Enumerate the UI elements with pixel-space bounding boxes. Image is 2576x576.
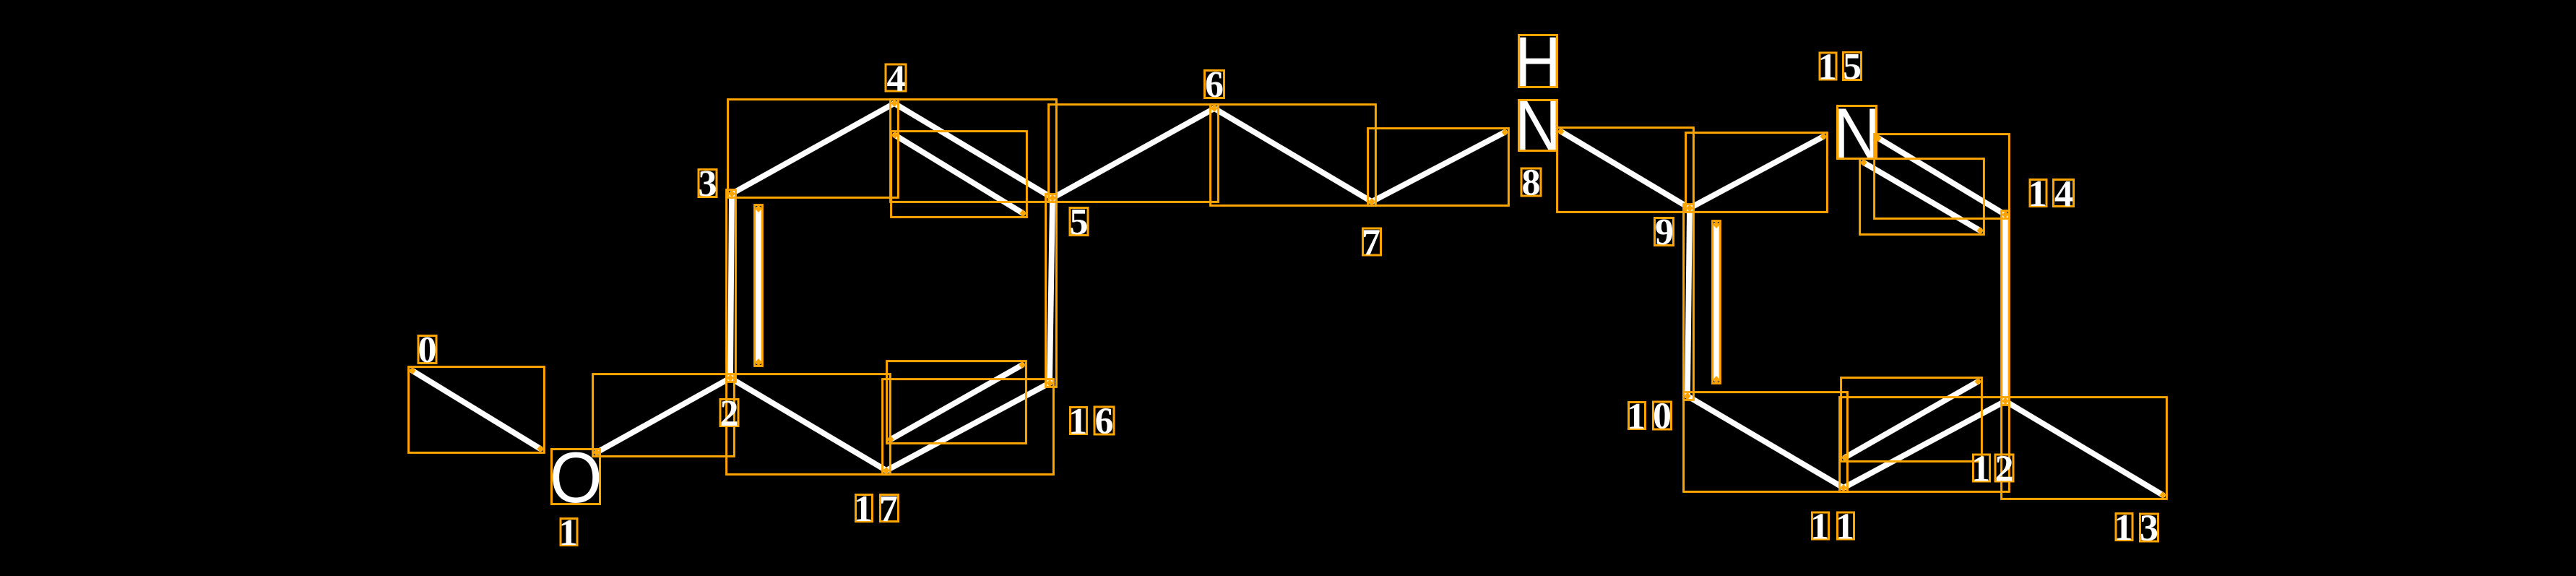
svg-text:3: 3 xyxy=(699,163,717,205)
svg-text:9: 9 xyxy=(1655,212,1674,253)
svg-text:6: 6 xyxy=(1095,401,1114,442)
svg-text:4: 4 xyxy=(887,59,906,100)
svg-text:1: 1 xyxy=(1810,507,1829,548)
svg-text:7: 7 xyxy=(879,489,898,530)
svg-text:N: N xyxy=(1515,86,1561,166)
svg-text:0: 0 xyxy=(418,330,437,371)
svg-text:6: 6 xyxy=(1205,64,1224,106)
svg-text:0: 0 xyxy=(1653,396,1672,437)
svg-text:1: 1 xyxy=(559,512,578,554)
svg-text:7: 7 xyxy=(1362,223,1380,264)
svg-text:4: 4 xyxy=(2054,173,2073,215)
svg-text:O: O xyxy=(550,439,602,518)
svg-text:3: 3 xyxy=(2140,508,2158,549)
svg-text:1: 1 xyxy=(1068,401,1087,442)
svg-text:5: 5 xyxy=(1843,46,1862,87)
svg-text:1: 1 xyxy=(2028,173,2047,215)
svg-text:1: 1 xyxy=(1627,396,1646,437)
svg-text:1: 1 xyxy=(2114,507,2133,549)
svg-text:1: 1 xyxy=(1818,47,1837,88)
svg-text:1: 1 xyxy=(1971,449,1990,490)
svg-text:2: 2 xyxy=(720,393,739,434)
svg-text:5: 5 xyxy=(1070,202,1089,243)
svg-text:2: 2 xyxy=(1995,449,2014,490)
svg-text:1: 1 xyxy=(854,489,873,530)
svg-text:8: 8 xyxy=(1522,163,1541,204)
svg-text:1: 1 xyxy=(1836,507,1854,548)
